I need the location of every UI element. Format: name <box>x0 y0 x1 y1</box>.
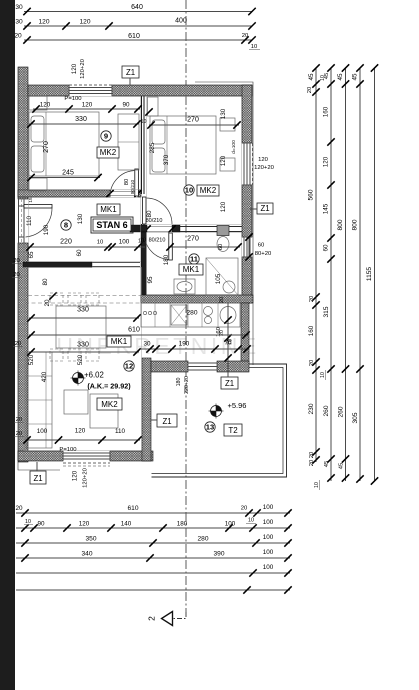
wall C upper horizontal <box>172 225 180 232</box>
svg-text:MK2: MK2 <box>200 186 217 195</box>
svg-text:120+20: 120+20 <box>254 165 275 171</box>
room10 MK2 <box>197 185 219 196</box>
svg-text:190: 190 <box>179 341 190 348</box>
svg-text:45: 45 <box>352 73 359 81</box>
svg-text:10: 10 <box>141 119 147 125</box>
svg-text:330: 330 <box>75 116 87 123</box>
svg-text:1155: 1155 <box>366 267 373 282</box>
hall MK1 <box>97 204 120 215</box>
svg-text:520: 520 <box>77 354 84 365</box>
right exterior wall mid <box>242 185 252 237</box>
svg-text:80+20: 80+20 <box>255 251 272 257</box>
dim living 610 <box>29 334 248 336</box>
svg-text:160: 160 <box>323 106 330 117</box>
terrace number <box>205 422 215 432</box>
dim line top 640 <box>24 11 252 13</box>
svg-text:90: 90 <box>122 102 130 109</box>
svg-text:95: 95 <box>147 276 154 284</box>
bottom dim line 6 <box>16 589 290 591</box>
room10 door swing arc <box>146 198 172 224</box>
svg-text:Z1: Z1 <box>225 379 234 388</box>
dim living 330 upper <box>29 317 139 319</box>
dim line top 120/120/400 <box>24 25 252 27</box>
Z1 bottom wall <box>30 471 46 484</box>
svg-text:190: 190 <box>43 224 50 235</box>
svg-text:145: 145 <box>323 203 330 214</box>
svg-text:30: 30 <box>143 341 151 348</box>
svg-text:20: 20 <box>15 505 23 512</box>
room9 door leaf <box>135 169 139 196</box>
svg-text:45: 45 <box>337 73 344 81</box>
room10 nightstand top <box>220 118 235 131</box>
svg-text:610: 610 <box>127 505 138 512</box>
svg-text:20: 20 <box>309 359 315 366</box>
svg-text:65: 65 <box>28 251 35 259</box>
svg-text:100: 100 <box>263 564 274 571</box>
svg-text:400: 400 <box>175 18 187 25</box>
dim line top 610 <box>24 39 252 41</box>
room10 door leaf <box>143 197 147 224</box>
bottom wall outer corner line <box>18 462 60 470</box>
dim bath 270 <box>168 246 240 248</box>
svg-text:220: 220 <box>60 239 72 246</box>
svg-text:20: 20 <box>16 417 23 423</box>
room9 MK2 <box>97 147 119 158</box>
svg-text:800: 800 <box>352 219 359 230</box>
svg-text:20: 20 <box>15 341 22 347</box>
svg-text:370: 370 <box>163 154 170 165</box>
upper cabinets dashed <box>28 295 141 297</box>
svg-text:305: 305 <box>352 412 359 423</box>
svg-text:20: 20 <box>13 272 20 278</box>
svg-text:245: 245 <box>62 170 74 177</box>
svg-text:60: 60 <box>323 244 330 252</box>
living elevation marker <box>73 373 84 384</box>
wall B rooms 9/10 divider <box>141 96 143 194</box>
bottom window glazing <box>63 452 110 454</box>
wall D hall-living <box>23 262 92 267</box>
svg-text:10: 10 <box>185 186 193 195</box>
hall STAN 6 box <box>93 219 131 231</box>
dim kitchen 30/190/70 <box>141 348 248 350</box>
living MK2 <box>97 398 122 410</box>
bottom dim line 2 <box>16 527 290 529</box>
svg-text:285: 285 <box>149 142 156 153</box>
kitchen appliance <box>220 307 236 324</box>
svg-text:STAN 6: STAN 6 <box>96 220 127 230</box>
terrace parapet <box>152 364 287 477</box>
dim room9 245 <box>29 177 100 179</box>
svg-text:30: 30 <box>15 4 23 11</box>
svg-text:110: 110 <box>26 215 33 226</box>
svg-text:20: 20 <box>309 451 315 458</box>
terrace left wall hatched <box>142 358 151 461</box>
svg-text:MK1: MK1 <box>183 265 200 274</box>
right dim line 5 <box>374 68 376 481</box>
window 60 dim ticks <box>248 237 250 257</box>
svg-text:+6.02: +6.02 <box>84 371 104 380</box>
right exterior wall upper <box>242 85 252 143</box>
terrace elevation marker <box>211 406 222 417</box>
svg-text:11: 11 <box>190 255 199 264</box>
svg-text:20: 20 <box>241 506 248 512</box>
svg-text:110: 110 <box>115 428 126 435</box>
svg-text:610: 610 <box>128 327 140 334</box>
svg-text:20: 20 <box>219 297 225 303</box>
Z1 right wall <box>257 203 273 214</box>
svg-text:280: 280 <box>197 536 208 543</box>
svg-text:MK2: MK2 <box>101 400 118 409</box>
svg-text:100: 100 <box>263 549 274 556</box>
svg-text:10: 10 <box>248 518 254 524</box>
right dim line 4 <box>359 68 361 481</box>
svg-text:100: 100 <box>225 521 236 528</box>
room10 closet <box>148 97 159 116</box>
bathroom door swing arc <box>145 237 169 260</box>
bottom dim line 4 <box>16 557 290 559</box>
entrance door jambs <box>18 199 20 243</box>
Z1 top wall <box>122 66 139 78</box>
dining chairs dashed <box>50 293 63 305</box>
svg-text:100: 100 <box>37 428 48 435</box>
svg-text:10: 10 <box>140 238 146 244</box>
dining table <box>56 306 106 348</box>
svg-text:Z1: Z1 <box>126 68 135 77</box>
svg-text:120: 120 <box>79 19 90 26</box>
svg-text:(A.K.= 29.92): (A.K.= 29.92) <box>87 382 131 391</box>
svg-text:45: 45 <box>339 462 345 469</box>
kitchen stove <box>171 305 187 325</box>
svg-text:270: 270 <box>43 141 50 153</box>
svg-text:120: 120 <box>220 155 227 166</box>
svg-text:120: 120 <box>40 102 51 109</box>
dim living 330 lower <box>29 351 139 353</box>
svg-text:+5.96: +5.96 <box>228 401 247 410</box>
roof outline top right <box>195 82 253 365</box>
svg-text:30: 30 <box>15 19 23 26</box>
svg-text:8: 8 <box>64 221 68 230</box>
svg-text:45: 45 <box>324 460 330 467</box>
hall number <box>61 220 71 230</box>
svg-text:20: 20 <box>309 295 315 302</box>
svg-text:P=100: P=100 <box>59 447 77 453</box>
bath number <box>189 254 199 264</box>
room9 number <box>101 131 111 141</box>
svg-text:20: 20 <box>16 431 23 437</box>
svg-text:270: 270 <box>187 236 199 243</box>
kitchen vertical dim <box>227 303 229 371</box>
svg-text:Z1: Z1 <box>162 417 171 426</box>
room9 nightstand top <box>29 96 47 110</box>
svg-text:12: 12 <box>125 362 133 371</box>
svg-text:120: 120 <box>258 157 269 163</box>
svg-text:90: 90 <box>37 521 45 528</box>
svg-text:60: 60 <box>218 243 224 250</box>
svg-text:120: 120 <box>38 19 49 26</box>
svg-text:2: 2 <box>147 616 157 621</box>
bathroom sink <box>174 279 195 294</box>
wall C door threshold <box>147 226 172 228</box>
svg-text:120: 120 <box>220 201 227 212</box>
kitchen counter <box>141 303 240 327</box>
wall F bathroom bottom hatched <box>141 295 253 303</box>
centerline axis 2 <box>185 0 187 612</box>
svg-text:220+20: 220+20 <box>184 376 190 394</box>
top exterior wall right <box>112 85 252 96</box>
svg-text:45: 45 <box>308 73 315 81</box>
terrace top wall right part <box>217 361 249 372</box>
room10 number <box>184 185 194 195</box>
svg-text:390: 390 <box>213 551 224 558</box>
svg-text:340: 340 <box>81 551 92 558</box>
bathroom door leaf <box>169 233 173 260</box>
right wall kitchen nook <box>241 303 249 363</box>
terrace top wall left part <box>151 361 188 372</box>
dim room9 330 <box>29 123 139 125</box>
Z1 terrace left <box>157 414 177 427</box>
svg-text:260: 260 <box>338 406 345 417</box>
wall room9-hall hatched <box>18 190 110 197</box>
svg-text:45: 45 <box>324 72 330 79</box>
svg-text:260: 260 <box>323 405 330 416</box>
svg-text:330: 330 <box>77 307 89 314</box>
right window 120 glazing <box>243 143 245 185</box>
room10 inner outline <box>147 97 242 225</box>
svg-text:180: 180 <box>176 378 182 387</box>
room9 inner outline <box>29 97 141 190</box>
room9 bed <box>29 112 99 176</box>
svg-text:10: 10 <box>320 372 326 378</box>
room9 nightstand bottom <box>29 178 47 191</box>
svg-text:d=100: d=100 <box>231 140 237 154</box>
entrance door swing arc <box>26 208 53 237</box>
svg-text:10: 10 <box>25 519 31 525</box>
Z1 terrace top <box>221 377 238 389</box>
terrace door threshold <box>188 362 217 364</box>
kitchen sink bowls <box>204 307 213 316</box>
terrace T2 <box>224 424 242 436</box>
wall C left stub <box>130 225 147 232</box>
top exterior wall left <box>28 85 69 96</box>
dim room10 270 <box>149 124 239 126</box>
svg-text:160: 160 <box>308 325 315 336</box>
left exterior wall lower <box>18 243 28 462</box>
right dim line 2 <box>330 68 332 481</box>
section arrow 2 <box>173 612 186 619</box>
svg-text:120: 120 <box>75 428 86 435</box>
living inner outline <box>24 268 142 451</box>
svg-text:100: 100 <box>263 519 274 526</box>
bath inner outline <box>147 233 242 295</box>
svg-text:315: 315 <box>323 306 330 317</box>
svg-text:610: 610 <box>128 33 140 40</box>
svg-text:120: 120 <box>79 521 90 528</box>
svg-text:120+20: 120+20 <box>83 467 89 488</box>
svg-text:230: 230 <box>308 403 315 414</box>
svg-text:350: 350 <box>85 536 96 543</box>
dim room9 120/120/90 <box>33 108 140 110</box>
wall E bathroom left <box>141 232 146 302</box>
right window 60 glazing <box>243 237 245 257</box>
room9 wardrobe <box>118 114 139 170</box>
bottom dim line 1 <box>16 512 290 514</box>
svg-text:140: 140 <box>121 521 132 528</box>
svg-text:60: 60 <box>76 249 83 257</box>
svg-text:70: 70 <box>224 340 232 347</box>
svg-text:120: 120 <box>82 102 93 109</box>
svg-text:560: 560 <box>308 189 315 200</box>
bathroom shower <box>206 258 238 295</box>
svg-text:10: 10 <box>97 240 104 246</box>
svg-text:9: 9 <box>104 132 108 141</box>
kitchen burners <box>143 311 146 314</box>
entrance door leaf <box>24 205 52 209</box>
coffee table <box>64 390 88 414</box>
bottom exterior wall right <box>110 451 153 461</box>
svg-text:T2: T2 <box>228 426 238 435</box>
svg-text:130: 130 <box>220 108 227 119</box>
svg-text:MK1: MK1 <box>111 337 128 346</box>
living number <box>124 361 134 371</box>
svg-text:13: 13 <box>206 423 214 432</box>
bottom dim line 5 <box>16 572 290 574</box>
svg-text:20: 20 <box>242 33 249 39</box>
svg-text:420: 420 <box>41 371 48 382</box>
svg-text:20: 20 <box>309 459 315 466</box>
svg-text:80: 80 <box>146 210 153 218</box>
right dim line 1 <box>315 68 317 462</box>
svg-text:100: 100 <box>119 239 130 246</box>
right exterior wall low <box>242 257 252 303</box>
svg-text:80/210: 80/210 <box>149 238 166 244</box>
svg-text:105: 105 <box>215 273 222 284</box>
svg-text:800: 800 <box>337 219 344 230</box>
svg-text:330: 330 <box>77 342 89 349</box>
svg-text:180: 180 <box>177 521 188 528</box>
svg-text:280: 280 <box>186 310 197 317</box>
svg-text:10: 10 <box>314 482 320 488</box>
right dim line 3 <box>345 68 347 481</box>
svg-text:MK1: MK1 <box>100 205 117 214</box>
bath MK1 <box>179 264 203 275</box>
dim hall 220/10 <box>28 246 145 248</box>
armchair <box>90 394 118 428</box>
svg-text:Z1: Z1 <box>260 204 269 213</box>
bottom exterior wall left <box>18 451 63 461</box>
svg-text:100: 100 <box>263 534 274 541</box>
dim living 100/120 <box>25 439 140 441</box>
svg-text:130: 130 <box>77 213 84 224</box>
sofa <box>26 352 52 448</box>
svg-text:80: 80 <box>42 278 49 286</box>
svg-text:520: 520 <box>28 354 35 365</box>
left exterior wall upper <box>18 67 28 199</box>
svg-text:80/210: 80/210 <box>146 218 163 224</box>
svg-text:20: 20 <box>307 86 313 93</box>
svg-text:180: 180 <box>163 254 170 265</box>
svg-text:80/210: 80/210 <box>130 180 135 194</box>
svg-text:P=100: P=100 <box>64 96 82 102</box>
svg-text:60: 60 <box>258 243 265 249</box>
bathroom toilet <box>217 226 229 236</box>
svg-text:Z1: Z1 <box>33 474 42 483</box>
svg-text:120: 120 <box>71 63 78 74</box>
svg-text:120: 120 <box>72 470 79 481</box>
hall inner outline <box>29 198 141 262</box>
svg-text:20: 20 <box>13 258 20 264</box>
bottom dim line 3 <box>16 542 290 544</box>
svg-text:120+20: 120+20 <box>80 58 86 79</box>
svg-text:120: 120 <box>323 156 330 167</box>
room10 bed <box>150 116 216 174</box>
wall B lower stub <box>141 224 143 232</box>
svg-text:270: 270 <box>187 117 199 124</box>
room10 nightstand bottom <box>220 158 235 171</box>
svg-text:640: 640 <box>131 4 143 11</box>
svg-text:10: 10 <box>251 44 258 50</box>
living MK1 <box>107 336 131 347</box>
top window glazing <box>69 87 112 89</box>
svg-text:MK2: MK2 <box>100 148 117 157</box>
room9 door swing arc <box>110 171 135 197</box>
black margin bar left <box>0 0 15 690</box>
svg-text:100: 100 <box>263 504 274 511</box>
svg-text:20: 20 <box>14 33 22 40</box>
room9 door jambs <box>109 190 111 197</box>
